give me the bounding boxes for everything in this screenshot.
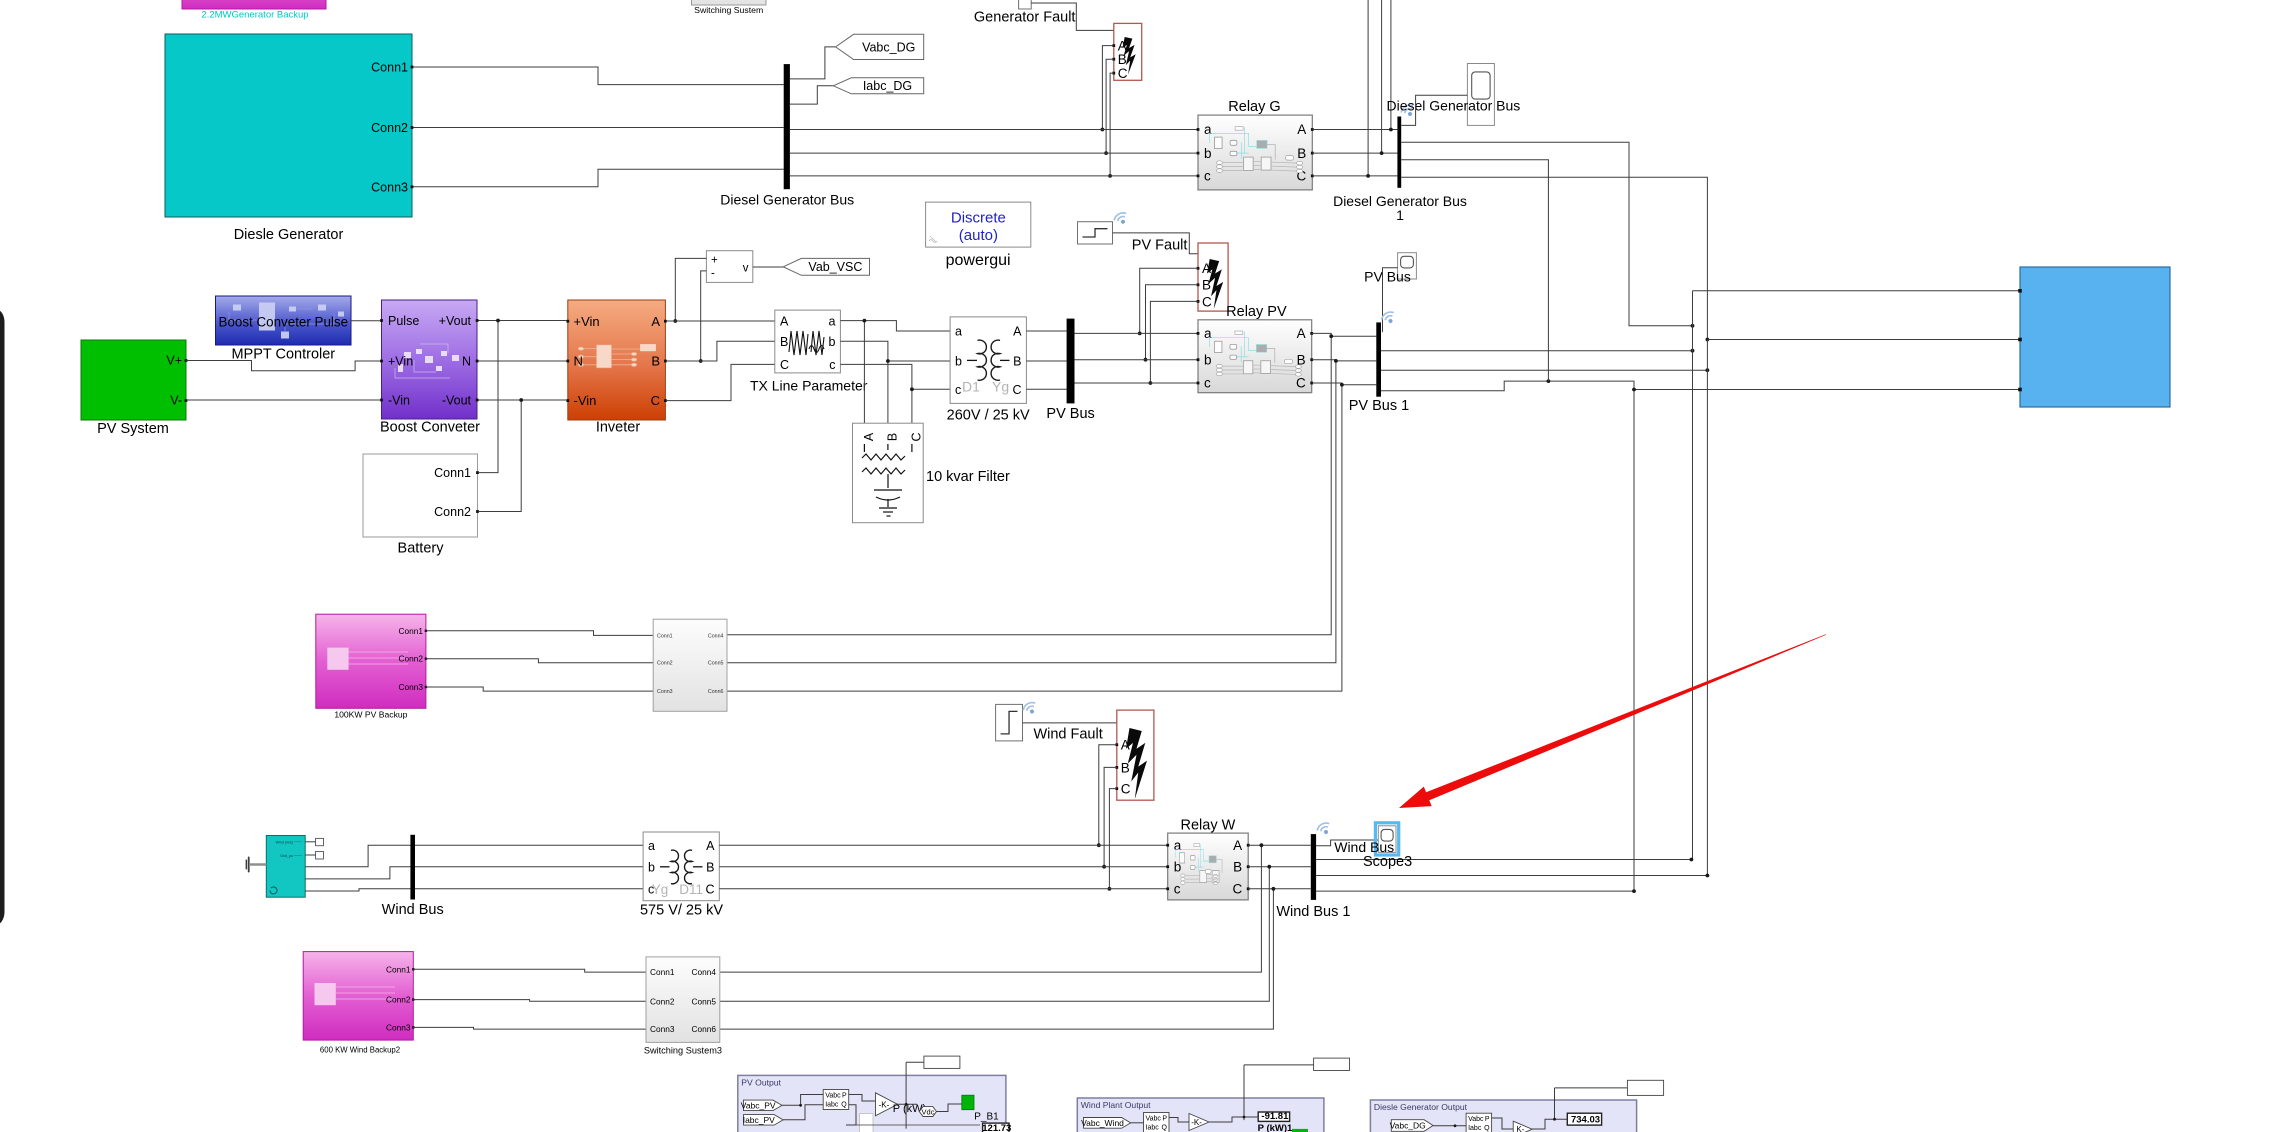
node junction B net xyxy=(1706,368,1710,372)
svg-text:Conn1: Conn1 xyxy=(650,967,675,977)
wire backup A riser to Conn4 xyxy=(727,336,1331,635)
wire PV Bus c to Relay PV c xyxy=(1075,382,1199,384)
svg-text:Vabc_PV: Vabc_PV xyxy=(741,1100,776,1110)
svg-text:734.03: 734.03 xyxy=(1571,1115,1600,1126)
node dg junction 2 xyxy=(1553,1118,1556,1121)
step source block Wind Fault source xyxy=(996,704,1023,741)
node junction top riser B xyxy=(1380,151,1384,155)
svg-text:C: C xyxy=(1232,882,1242,897)
node junction wind A net xyxy=(1690,858,1694,862)
svg-text:C: C xyxy=(1121,782,1131,797)
filter RLC symbols xyxy=(862,444,912,516)
subsystem 600 KW Wind Backup2 xyxy=(303,952,413,1041)
svg-text:-K-: -K- xyxy=(879,1100,890,1109)
wire tap to Battery Conn1 xyxy=(478,321,498,473)
wire vabc_wind to meas xyxy=(1131,1122,1144,1124)
svg-text:Yg: Yg xyxy=(992,379,1009,395)
svg-text:A: A xyxy=(1233,838,1242,853)
wire xfmr C to PV Bus xyxy=(1026,388,1066,390)
svg-text:c: c xyxy=(1204,169,1211,184)
wire backup Conn3 xyxy=(426,687,653,691)
wire PV Bus 1 to scope xyxy=(1383,268,1398,333)
svg-text:Boost Conveter: Boost Conveter xyxy=(380,420,480,436)
display block display -91.81 xyxy=(1258,1112,1289,1121)
wire diesel C to B-net xyxy=(1401,177,1707,339)
wire filter tap B xyxy=(887,361,889,428)
wire PV Bus a to Relay PV a xyxy=(1075,332,1199,334)
svg-text:PV Bus: PV Bus xyxy=(1364,269,1411,285)
TX line inductor symbols xyxy=(789,331,824,355)
from tag Iabc_PV xyxy=(744,1115,784,1126)
wire vdc to green xyxy=(937,1104,962,1112)
svg-text:Relay W: Relay W xyxy=(1181,818,1236,834)
wire backup Conn1 xyxy=(426,631,653,636)
svg-text:P: P xyxy=(1485,1116,1490,1123)
svg-text:PV System: PV System xyxy=(97,421,169,437)
wire top riser C xyxy=(1367,0,1369,176)
annotation panel Diesle Generator Output xyxy=(1370,1100,1636,1132)
display block display 734.03 xyxy=(1567,1113,1601,1125)
wire generator fault trigger xyxy=(1031,3,1142,30)
svg-text:A: A xyxy=(862,432,876,441)
svg-text:a: a xyxy=(1204,326,1212,341)
wire to 121 display xyxy=(848,1124,980,1126)
small mux box xyxy=(860,1114,874,1132)
winding 575 primary xyxy=(671,850,678,884)
wire xfmr A to PV Bus xyxy=(1026,330,1066,332)
wire Boost N to Inveter N xyxy=(479,360,567,362)
svg-text:-K-: -K- xyxy=(1191,1118,1202,1127)
power measurement block PV meas xyxy=(823,1090,849,1110)
wire DG bus b to Relay G xyxy=(790,152,1198,154)
lightning symbol PV Fault block xyxy=(1207,259,1223,309)
wire gen fault C tap xyxy=(1110,73,1114,176)
node junction A net xyxy=(1691,349,1695,353)
svg-text:-: - xyxy=(711,268,715,280)
svg-text:A: A xyxy=(651,314,660,329)
svg-text:Wind Plant Output: Wind Plant Output xyxy=(1081,1100,1151,1110)
node junction fault c xyxy=(1149,381,1153,385)
wire dg meas to gain xyxy=(1492,1118,1514,1129)
svg-text:Conn3: Conn3 xyxy=(657,689,673,695)
svg-text:V-: V- xyxy=(170,394,182,408)
svg-text:B: B xyxy=(1118,52,1127,67)
svg-text:Gnd_pu: Gnd_pu xyxy=(280,854,293,858)
node junction diesel B joins xyxy=(1547,379,1551,383)
svg-text:Vabc: Vabc xyxy=(1468,1116,1484,1123)
from tag Vabc_Wind xyxy=(1084,1118,1131,1129)
wire turbine m2 xyxy=(305,854,315,856)
node junction wfault a xyxy=(1097,843,1101,847)
bus bar PV Bus 1 xyxy=(1376,322,1381,396)
svg-text:Conn6: Conn6 xyxy=(692,1024,717,1034)
subsystem wind turbine xyxy=(266,836,305,898)
svg-text:D1: D1 xyxy=(962,379,980,395)
goto tag Vab_VSC xyxy=(783,258,869,275)
svg-text:a: a xyxy=(1174,838,1182,853)
wifi logging badge PV Bus 1 badge xyxy=(1380,310,1397,326)
wire pv riser xyxy=(905,1062,907,1129)
subsystem MPPT Controler xyxy=(216,296,352,345)
wire PV Bus1 A out xyxy=(1381,350,1693,352)
relay subsystem block Relay W xyxy=(1166,833,1249,900)
wire iabc to meas xyxy=(783,1105,823,1120)
svg-text:260V / 25 kV: 260V / 25 kV xyxy=(947,408,1030,424)
svg-text:b: b xyxy=(955,355,962,369)
svg-text:A: A xyxy=(706,839,715,853)
wire PV fault C tap xyxy=(1150,301,1198,383)
wire Inveter C to TX C xyxy=(667,364,775,400)
svg-text:B: B xyxy=(1297,146,1306,161)
wire TX c to xfmr c xyxy=(840,364,950,389)
wire wind fault B tap xyxy=(1104,767,1117,866)
node junction B phase / - xyxy=(699,359,703,363)
wire Relay G A to bus1 xyxy=(1312,129,1397,131)
scope block Scope3 xyxy=(1378,826,1396,853)
wire minus input tap xyxy=(701,271,707,361)
wire riser to Conn4 xyxy=(720,845,1262,972)
empty display above Wind Plant Output xyxy=(1314,1058,1350,1070)
node dg junction xyxy=(1454,1124,1457,1127)
wire Relay G B to bus1 xyxy=(1312,152,1397,154)
svg-text:B: B xyxy=(1233,859,1242,874)
wire Conn3 to DG bus xyxy=(413,169,783,187)
scope block PV Bus scope xyxy=(1398,253,1417,279)
winding xfmr secondary xyxy=(991,340,1000,380)
svg-text:C: C xyxy=(1296,376,1306,391)
wire turbine a to Wind Bus xyxy=(305,845,643,867)
svg-text:Conn2: Conn2 xyxy=(371,121,408,135)
node junction bus1 B xyxy=(1334,359,1338,363)
green block (clipped) xyxy=(1292,1129,1308,1132)
svg-text:Conn3: Conn3 xyxy=(386,1022,411,1032)
node junction bus1 A xyxy=(1329,334,1333,338)
turbine outports xyxy=(316,838,324,845)
wire vabc_dg to meas xyxy=(1433,1125,1466,1127)
svg-text:-Vout: -Vout xyxy=(442,394,472,408)
svg-text:A: A xyxy=(1013,325,1022,339)
svg-text:Conn1: Conn1 xyxy=(371,61,408,75)
wire top riser A xyxy=(1390,0,1392,130)
wire wind A out xyxy=(1316,859,1691,861)
svg-text:Relay G: Relay G xyxy=(1228,99,1280,115)
wire turbine c to Wind Bus xyxy=(305,889,643,891)
svg-text:+Vin: +Vin xyxy=(574,314,600,329)
three-phase fault block Wind Fault block xyxy=(1115,710,1154,800)
wire PV fault A tap xyxy=(1140,268,1198,333)
svg-text:-91.81: -91.81 xyxy=(1261,1111,1289,1122)
svg-text:Conn4: Conn4 xyxy=(708,633,724,639)
svg-text:c: c xyxy=(829,358,835,372)
svg-text:Conn2: Conn2 xyxy=(434,505,471,519)
wire gen fault B tap xyxy=(1106,59,1114,153)
wire 575 C to Relay W c xyxy=(719,888,1167,890)
svg-text:Conn1: Conn1 xyxy=(386,964,411,974)
wire riser to rect1 xyxy=(906,1061,924,1063)
svg-text:P: P xyxy=(842,1093,847,1100)
node junction filter C xyxy=(910,387,914,391)
svg-text:Conn3: Conn3 xyxy=(371,180,408,194)
bus bar Diesel Generator Bus xyxy=(784,64,790,189)
wire A-net trunk xyxy=(1692,291,1694,860)
wire backup B riser to Conn5 xyxy=(727,361,1336,663)
svg-text:B: B xyxy=(780,335,788,349)
node junction gfault a xyxy=(1101,128,1105,132)
wire diesel A to A-net xyxy=(1401,142,1692,325)
svg-text:TX Line Parameter: TX Line Parameter xyxy=(750,378,868,394)
block 10 kvar Filter xyxy=(853,423,924,523)
wire bus to Vabc_DG xyxy=(790,47,836,79)
svg-text:C: C xyxy=(651,393,660,408)
three-phase fault block PV Fault block xyxy=(1197,243,1229,311)
svg-text:Conn1: Conn1 xyxy=(657,633,673,639)
load block (blue) xyxy=(2020,267,2170,407)
wire DG bus c to Relay G xyxy=(790,175,1198,177)
wire vabc to meas xyxy=(782,1095,823,1106)
svg-text:B: B xyxy=(651,354,660,369)
wire B-net to load xyxy=(1707,339,2020,341)
svg-text:a: a xyxy=(955,325,962,339)
subsystem Switching Sustem (clipped) xyxy=(692,0,767,5)
node junction wind B net xyxy=(1706,874,1710,878)
wire dg gain to display xyxy=(1532,1119,1567,1129)
svg-text:-Vin: -Vin xyxy=(388,394,410,408)
winding xfmr primary xyxy=(978,340,987,380)
wire PV Bus b to Relay PV b xyxy=(1075,359,1199,361)
svg-text:Switching Sustem: Switching Sustem xyxy=(694,5,763,15)
svg-text:Wind (m/s): Wind (m/s) xyxy=(276,840,293,844)
svg-text:Conn3: Conn3 xyxy=(399,682,424,692)
svg-text:Vabc_DG: Vabc_DG xyxy=(862,40,915,54)
svg-text:+Vout: +Vout xyxy=(439,314,472,328)
wire top riser B xyxy=(1381,0,1383,153)
node junction wfault b xyxy=(1102,865,1106,869)
svg-text:Yg: Yg xyxy=(652,882,669,897)
wifi logging badge Wind Bus 1 badge xyxy=(1316,821,1333,837)
voltage measurement block V xyxy=(706,251,752,283)
svg-text:A: A xyxy=(1297,122,1306,137)
subsystem PV System xyxy=(81,340,186,420)
svg-text:b: b xyxy=(1204,352,1212,367)
goto tag Iabc_DG xyxy=(833,78,923,94)
wire DG bus a to Relay G xyxy=(790,129,1198,131)
svg-text:V+: V+ xyxy=(166,354,182,368)
wire tap to Battery Conn2 xyxy=(478,400,521,512)
step source block PV Fault source xyxy=(1078,222,1113,244)
wire dg riser xyxy=(1554,1088,1556,1119)
node junction fault b xyxy=(1144,358,1148,362)
node junction top riser A xyxy=(1389,128,1393,132)
svg-text:Conn5: Conn5 xyxy=(692,996,717,1006)
node wind junction xyxy=(1243,1116,1246,1119)
wire 575 B to Relay W b xyxy=(719,866,1167,868)
wire diesel B down xyxy=(1401,160,1548,381)
step source Generator Fault (clipped) xyxy=(1019,0,1032,9)
svg-text:Vdc: Vdc xyxy=(922,1108,935,1117)
wire PV fault trigger xyxy=(1113,233,1199,254)
svg-text:c: c xyxy=(955,383,961,397)
from tag Vabc_PV xyxy=(744,1100,783,1111)
svg-text:Iabc: Iabc xyxy=(1146,1125,1160,1132)
wire 600KW Conn1 xyxy=(413,969,646,972)
wifi logging badge Wind Fault badge xyxy=(1022,700,1039,716)
svg-text:Wind Fault: Wind Fault xyxy=(1033,727,1102,743)
three-phase fault block Generator Fault block xyxy=(1112,23,1141,81)
wire wind riser xyxy=(1243,1065,1245,1120)
wire riser to Conn5 xyxy=(720,867,1270,1002)
from tag Vabc_DG out xyxy=(1391,1120,1433,1132)
node pv junction 2 xyxy=(905,1103,908,1106)
svg-text:PV Output: PV Output xyxy=(741,1077,781,1087)
svg-text:Conn1: Conn1 xyxy=(399,626,424,636)
bus bar Diesel Generator Bus 1 xyxy=(1397,117,1401,188)
wire Relay W A to wind bus1 xyxy=(1248,844,1311,846)
node junction bus1 C xyxy=(1340,383,1344,387)
wire Relay PV C to PV Bus 1 xyxy=(1312,383,1377,385)
wire filter tap C xyxy=(911,389,913,428)
annotation panel PV Output xyxy=(738,1075,1006,1132)
svg-text:Generator Fault: Generator Fault xyxy=(974,10,1076,26)
svg-text:v: v xyxy=(743,262,749,274)
node junction B net upper xyxy=(1706,338,1710,342)
svg-text:N: N xyxy=(462,355,471,369)
svg-text:C: C xyxy=(1012,383,1021,397)
svg-text:a: a xyxy=(648,839,655,853)
svg-text:Vab_VSC: Vab_VSC xyxy=(808,260,862,274)
scope Scope3 (selected) xyxy=(1375,823,1398,855)
svg-text:Vabc: Vabc xyxy=(1146,1116,1162,1123)
svg-text:575 V/ 25 kV: 575 V/ 25 kV xyxy=(640,903,723,919)
svg-text:powergui: powergui xyxy=(946,252,1011,269)
wire Relay PV B to PV Bus 1 xyxy=(1312,360,1377,361)
svg-text:Q: Q xyxy=(1162,1125,1168,1132)
svg-text:Conn4: Conn4 xyxy=(692,967,717,977)
node junction A phase / + xyxy=(673,319,677,323)
powergui block xyxy=(926,202,1031,247)
svg-text:1: 1 xyxy=(1396,207,1404,223)
lightning symbol Wind Fault block xyxy=(1126,728,1147,799)
winding 575 secondary xyxy=(685,850,692,884)
svg-text:Conn2: Conn2 xyxy=(657,661,673,667)
wire PV fault B tap xyxy=(1146,285,1199,360)
wire Inveter A to TX A xyxy=(667,320,775,322)
node junction wind C net xyxy=(1632,889,1636,893)
wire gen fault A tap xyxy=(1102,46,1113,130)
svg-text:Iabc_DG: Iabc_DG xyxy=(863,79,912,93)
wifi logging badge DG bus1 badge xyxy=(1400,103,1417,119)
block TX Line Parameter xyxy=(775,310,841,373)
wire PV Bus1 B out xyxy=(1381,369,1707,371)
node junction gfault c xyxy=(1108,174,1112,178)
wire bus to Iabc_DG xyxy=(790,86,833,104)
svg-text:Scope3: Scope3 xyxy=(1363,854,1412,870)
svg-text:D11: D11 xyxy=(679,882,703,897)
svg-text:Diesel Generator Bus: Diesel Generator Bus xyxy=(1386,98,1520,114)
svg-text:Conn2: Conn2 xyxy=(386,995,411,1005)
wire meas Q down xyxy=(846,1105,856,1125)
svg-text:B: B xyxy=(1013,355,1021,369)
svg-text:Conn3: Conn3 xyxy=(650,1024,675,1034)
subsystem 100KW PV Backup xyxy=(316,614,426,708)
svg-text:Diesel Generator Bus: Diesel Generator Bus xyxy=(720,192,854,208)
svg-text:Conn2: Conn2 xyxy=(399,654,424,664)
wire wind fault A tap xyxy=(1099,745,1117,846)
svg-text:Iabc_PV: Iabc_PV xyxy=(743,1115,775,1125)
svg-text:C: C xyxy=(1202,294,1212,309)
svg-text:C: C xyxy=(1118,66,1128,81)
turbine shaft icon xyxy=(250,863,266,866)
wire Relay G C to bus1 xyxy=(1312,175,1397,177)
empty display above Diesle Generator Output xyxy=(1627,1080,1663,1095)
svg-text:+Vin: +Vin xyxy=(388,355,413,369)
svg-text:P: P xyxy=(1162,1116,1167,1123)
subsystem Switching Sustem3 xyxy=(646,957,720,1043)
svg-text:Q: Q xyxy=(1484,1125,1490,1132)
wire PV Bus1 C out to load xyxy=(1381,381,2020,391)
bus bar Wind Bus 1 xyxy=(1311,834,1316,900)
node pv junction 1 xyxy=(799,1104,802,1107)
svg-text:Discrete: Discrete xyxy=(951,210,1006,227)
svg-text:Boost Conveter Pulse: Boost Conveter Pulse xyxy=(219,314,349,329)
svg-text:c: c xyxy=(1174,882,1181,897)
subsystem Inveter xyxy=(568,300,666,420)
svg-text:Iabc: Iabc xyxy=(1468,1125,1482,1132)
wire riser to Conn6 xyxy=(720,889,1274,1029)
svg-text:b: b xyxy=(648,860,655,874)
wire v to Vab_VSC tag xyxy=(753,266,784,268)
wire xfmr B to PV Bus xyxy=(1026,360,1066,362)
goto tag Vabc_DG xyxy=(836,34,924,59)
wire C-net trunk xyxy=(1633,390,1635,892)
svg-text:600 KW Wind Backup2: 600 KW Wind Backup2 xyxy=(320,1046,400,1055)
svg-text:Q: Q xyxy=(841,1102,847,1109)
svg-text:Pulse: Pulse xyxy=(388,314,419,328)
wire Boost +Vout to Inveter +Vin xyxy=(479,320,567,322)
wire Inveter B to TX B xyxy=(667,341,775,361)
wire Relay PV A to PV Bus 1 xyxy=(1312,333,1377,336)
bus bar PV Bus xyxy=(1067,319,1075,404)
transformer 575 V/ 25 kV xyxy=(643,832,719,901)
subsystem Diesle Generator xyxy=(165,34,412,217)
subsystem switching (unlabeled) xyxy=(653,619,727,711)
empty display above PV Output xyxy=(924,1056,960,1068)
svg-text:C: C xyxy=(705,883,714,897)
node junction wA riser xyxy=(1260,843,1264,847)
node junction A net upper xyxy=(1691,324,1695,328)
svg-text:Conn2: Conn2 xyxy=(650,996,675,1006)
svg-text:Diesle Generator Output: Diesle Generator Output xyxy=(1374,1102,1468,1112)
wire backup C riser to Conn6 xyxy=(727,385,1342,691)
relay subsystem block Relay PV xyxy=(1197,320,1314,393)
wifi logging badge PV Fault badge xyxy=(1113,211,1130,227)
svg-text:B: B xyxy=(885,433,899,441)
svg-text:(auto): (auto) xyxy=(959,227,998,244)
node junction -Vout/battery xyxy=(519,398,523,402)
gain block DG gain xyxy=(1513,1121,1532,1132)
svg-text:Vabc_DG: Vabc_DG xyxy=(1390,1121,1426,1131)
svg-text:Wind Bus: Wind Bus xyxy=(382,902,444,918)
node junction +Vout/battery xyxy=(496,319,500,323)
node junction wB riser xyxy=(1267,865,1271,869)
wire wind fault C tap xyxy=(1109,789,1116,889)
wire turbine b to Wind Bus xyxy=(305,867,643,879)
wire Conn2 to DG bus xyxy=(413,127,783,129)
annotation panel Wind Plant Output xyxy=(1077,1098,1324,1132)
wire wind C out xyxy=(1316,890,1634,892)
node junction wC riser xyxy=(1272,887,1276,891)
svg-text:A: A xyxy=(1297,326,1306,341)
bus bar Wind Bus xyxy=(410,835,415,900)
